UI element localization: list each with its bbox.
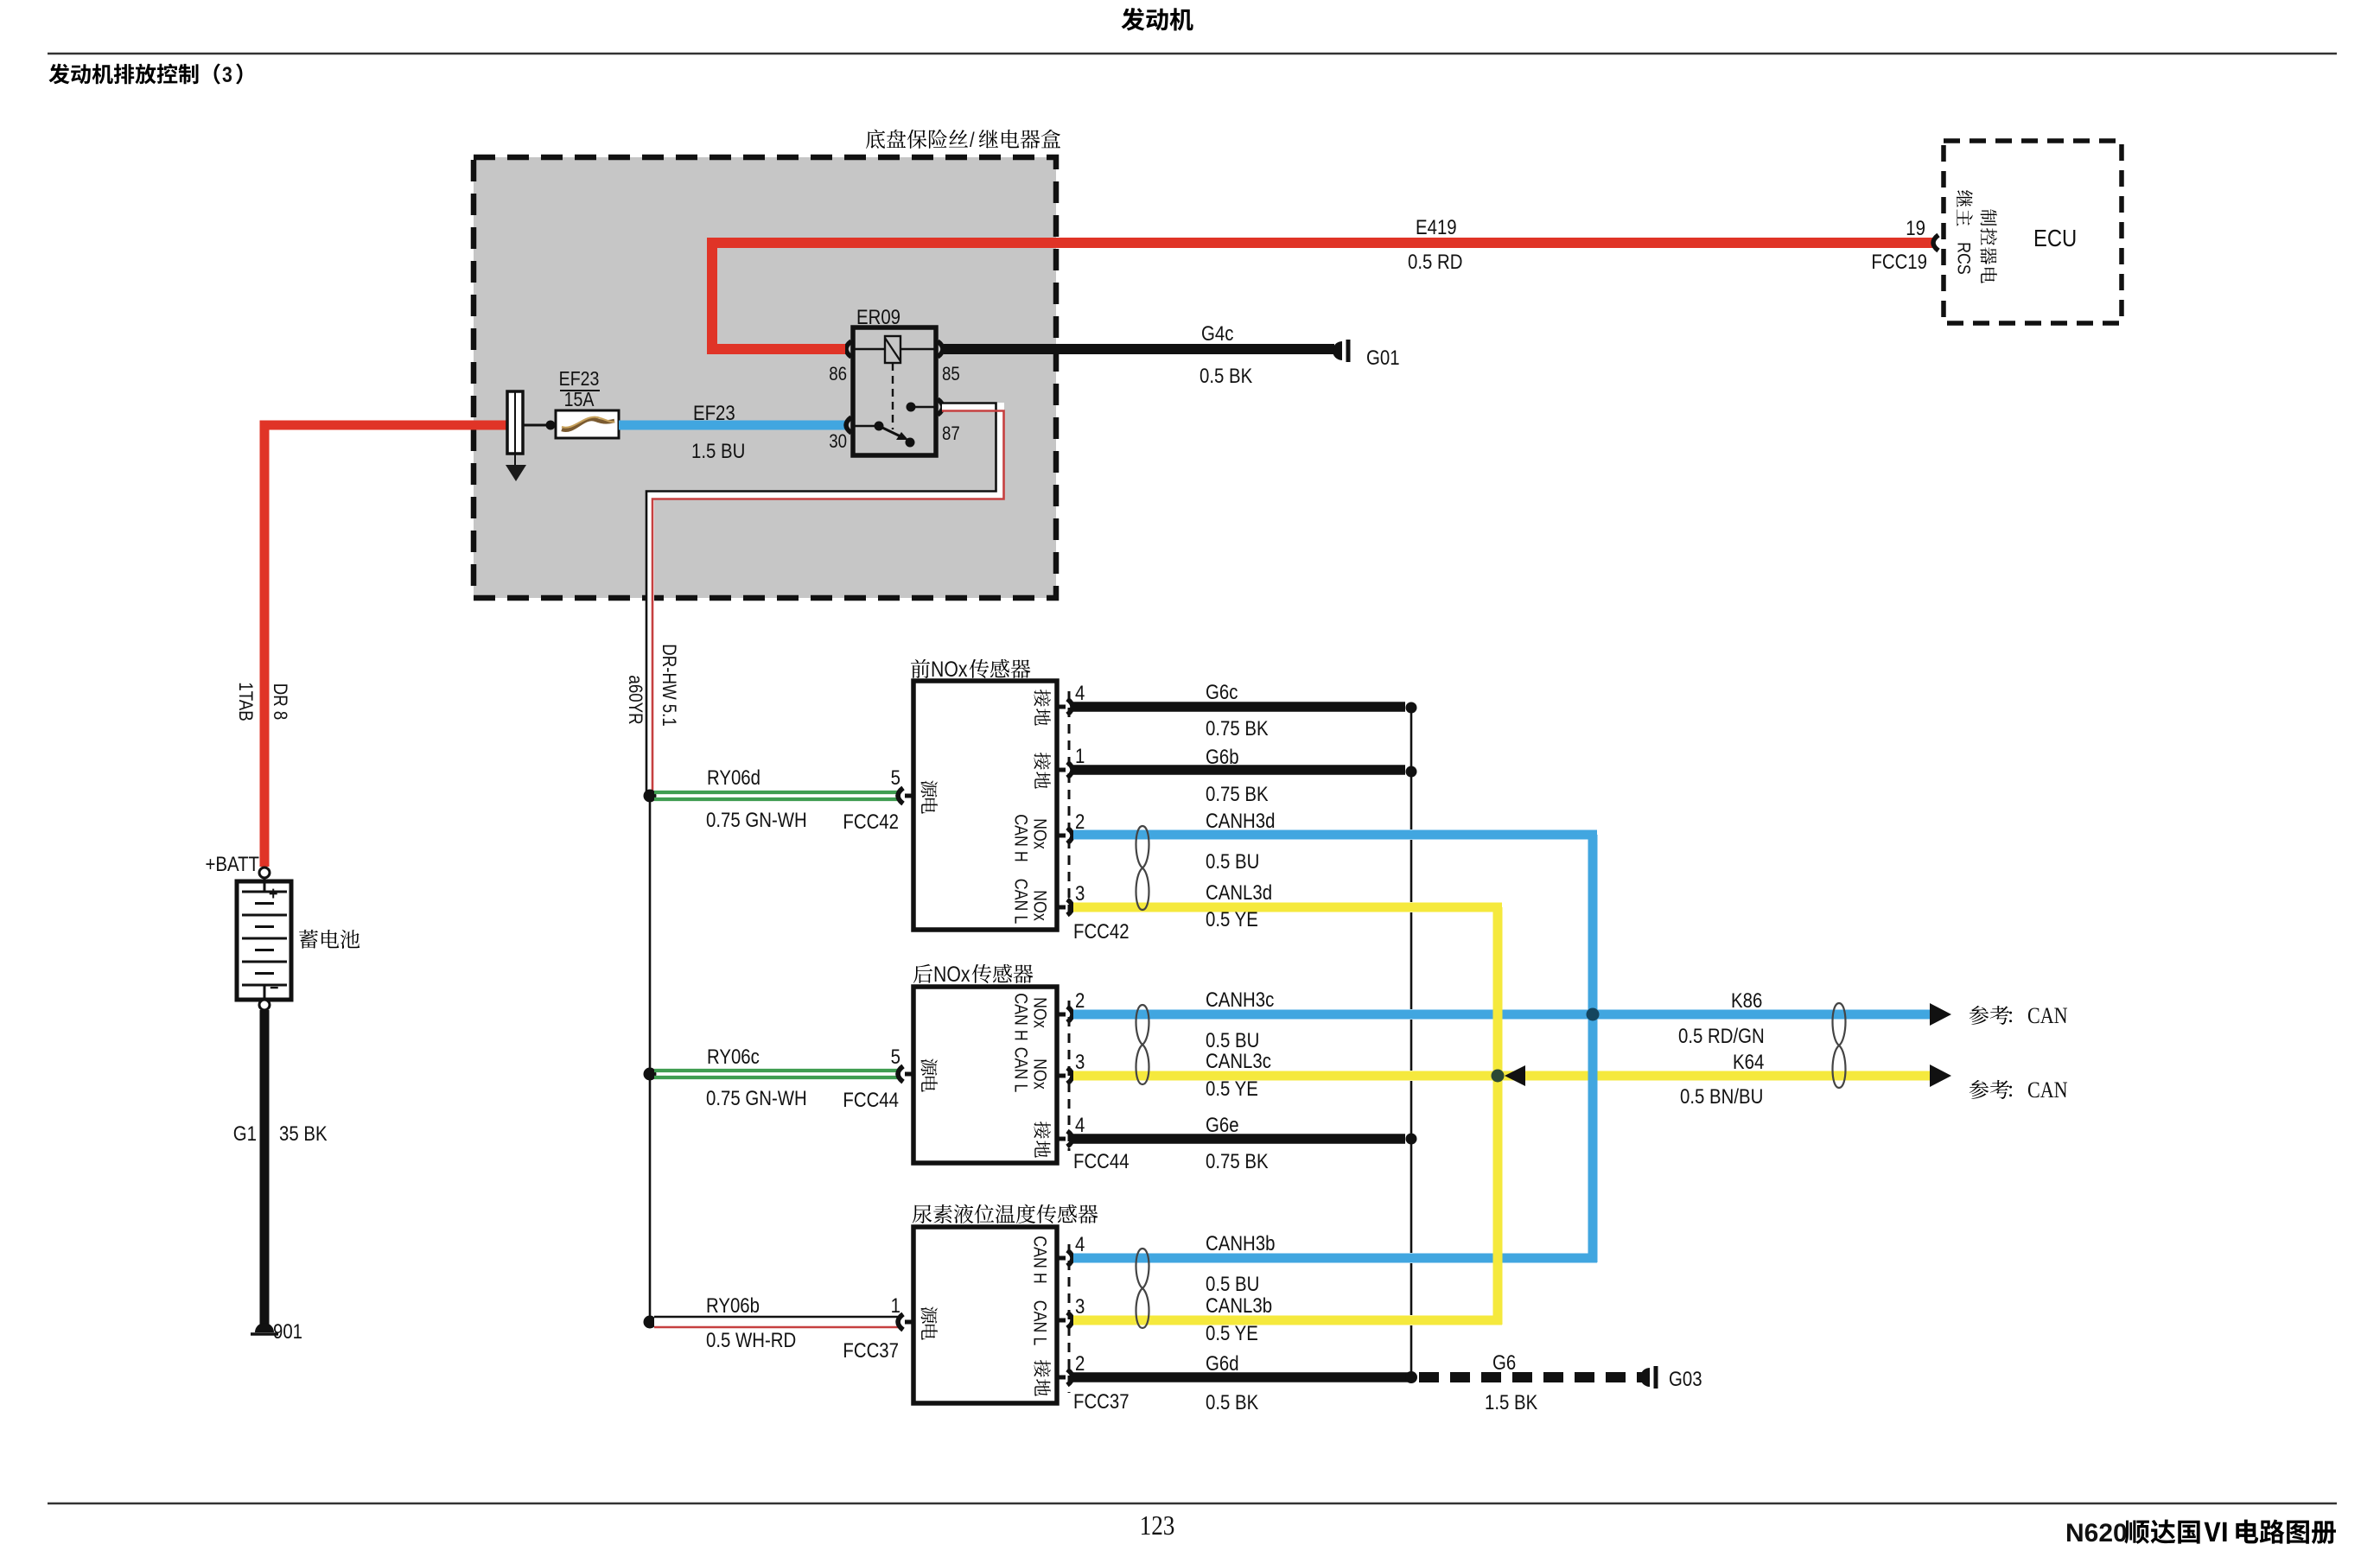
fuse bar symbol <box>507 391 523 454</box>
relay pin connectors <box>846 341 851 357</box>
arrow below fuse bar <box>514 454 516 465</box>
svg-text:EF23: EF23 <box>693 401 735 424</box>
svg-text:0.5 YE: 0.5 YE <box>1206 1321 1258 1344</box>
connector dashed boundary FCC37 <box>1068 1244 1071 1393</box>
svg-text:1: 1 <box>891 1293 900 1317</box>
svg-text:15A: 15A <box>564 389 595 411</box>
svg-text:123: 123 <box>1140 1511 1175 1541</box>
junction dot CANL + left arrow <box>1492 1070 1505 1083</box>
wire RY06d 0.75 GN-WH <box>654 791 899 794</box>
svg-text:0.5 BU: 0.5 BU <box>1206 1272 1259 1295</box>
svg-text:FCC42: FCC42 <box>843 810 899 833</box>
svg-text:G4c: G4c <box>1201 321 1233 345</box>
svg-text:30: 30 <box>829 432 847 453</box>
wire CANH3d 0.5 BU <box>1073 830 1597 840</box>
svg-text:CANL3c: CANL3c <box>1206 1049 1271 1072</box>
svg-text:RY06d: RY06d <box>707 766 760 789</box>
svg-text:0.5 YE: 0.5 YE <box>1206 907 1258 931</box>
svg-text:K64: K64 <box>1733 1050 1764 1073</box>
svg-text:87: 87 <box>942 424 960 445</box>
svg-text:G6e: G6e <box>1206 1113 1239 1136</box>
svg-text:CANH3d: CANH3d <box>1206 809 1275 832</box>
svg-text:0.5 BN/BU: 0.5 BN/BU <box>1680 1084 1763 1108</box>
wire G6d 0.5 BK <box>1073 1372 1409 1382</box>
svg-text:CAN: CAN <box>2027 1078 2068 1103</box>
svg-text:CANL3d: CANL3d <box>1206 880 1272 904</box>
CAN arrows to 参考 <box>1930 1003 1951 1026</box>
svg-text:NOx: NOx <box>933 962 970 986</box>
svg-text:FCC42: FCC42 <box>1073 919 1130 943</box>
relay coil <box>855 348 885 350</box>
svg-text:2: 2 <box>1075 1351 1085 1375</box>
svg-text:a60YR: a60YR <box>625 675 646 724</box>
svg-text:EF23: EF23 <box>559 368 600 391</box>
svg-text:19: 19 <box>1906 216 1925 239</box>
G6 dashed wire 1.5 BK to G03 <box>1405 1371 1417 1383</box>
wire BAT1 red: battery to fuse <box>264 425 506 867</box>
CAN H vertical bus (blue) <box>1588 835 1598 1262</box>
wire G6e 0.75 BK <box>1073 1134 1405 1144</box>
top rule <box>48 53 2337 55</box>
svg-text:FCC37: FCC37 <box>1073 1389 1130 1413</box>
ground 901 <box>255 1323 274 1332</box>
svg-text:N620: N620 <box>2065 1519 2128 1547</box>
wire CANL3c 0.5 YE <box>1073 1071 1930 1081</box>
svg-text:0.5 RD/GN: 0.5 RD/GN <box>1678 1024 1765 1047</box>
svg-text:G1: G1 <box>233 1122 257 1145</box>
svg-text:G6c: G6c <box>1206 680 1238 703</box>
front NOx sensor box 前NOx传感器 <box>913 681 1057 930</box>
bottom rule <box>48 1503 2337 1505</box>
svg-text:3: 3 <box>1075 1294 1085 1318</box>
svg-text:CAN H: CAN H <box>1029 1236 1050 1283</box>
svg-text:85: 85 <box>942 365 960 385</box>
svg-text:5: 5 <box>891 766 900 789</box>
svg-text:NOx: NOx <box>931 657 968 681</box>
svg-text:G6: G6 <box>1492 1350 1516 1374</box>
CAN L vertical bus (yellow) <box>1493 907 1503 1325</box>
svg-text:CANH3b: CANH3b <box>1206 1231 1275 1255</box>
svg-text:ECU: ECU <box>2033 224 2077 251</box>
svg-text:3: 3 <box>222 62 232 86</box>
svg-text:35 BK: 35 BK <box>279 1122 328 1145</box>
svg-text:CAN L: CAN L <box>1029 1300 1050 1346</box>
wire RY06b 0.5 WH-RD <box>654 1316 899 1329</box>
svg-text:ER09: ER09 <box>856 305 900 328</box>
svg-text:DR-HW 5.1: DR-HW 5.1 <box>659 644 679 727</box>
svg-text:FCC44: FCC44 <box>843 1088 899 1111</box>
battery 蓄电池 <box>259 867 270 878</box>
wire G1 35 BK <box>260 1010 270 1326</box>
svg-text:0.75 BK: 0.75 BK <box>1206 716 1269 740</box>
svg-text:FCC44: FCC44 <box>1073 1149 1130 1173</box>
svg-text:1TAB: 1TAB <box>235 682 256 721</box>
wire EF23 1.5 BU blue <box>619 421 849 430</box>
svg-text:CANH3c: CANH3c <box>1206 988 1274 1011</box>
svg-text:RY06c: RY06c <box>707 1045 760 1068</box>
svg-text:−: − <box>270 978 278 999</box>
relay ER09 <box>853 327 936 455</box>
junction dots <box>644 790 657 803</box>
svg-text:CAN L: CAN L <box>1010 1047 1031 1093</box>
connector dashed boundary FCC42 <box>1068 691 1071 920</box>
svg-text:0.75 BK: 0.75 BK <box>1206 1149 1269 1173</box>
ground connector G01 <box>1333 341 1342 360</box>
svg-text:NOx: NOx <box>1029 890 1050 921</box>
svg-text:5: 5 <box>891 1045 900 1068</box>
svg-text:G03: G03 <box>1669 1367 1702 1390</box>
wire CANH3b 0.5 BU <box>1073 1254 1597 1263</box>
svg-text:CANL3b: CANL3b <box>1206 1293 1272 1317</box>
svg-text:2: 2 <box>1075 810 1085 833</box>
connector dashed boundary FCC44 <box>1068 1001 1071 1151</box>
wire to EF23 <box>523 424 556 427</box>
svg-text:FCC37: FCC37 <box>843 1338 899 1362</box>
svg-text:CAN: CAN <box>2027 1004 2068 1028</box>
svg-text:901: 901 <box>273 1319 302 1343</box>
wire CANH3c 0.5 BU <box>1073 1010 1930 1020</box>
page title 发动机 <box>1122 8 1145 31</box>
svg-text:NOx: NOx <box>1029 1058 1050 1090</box>
svg-text:3: 3 <box>1075 1050 1085 1073</box>
svg-text:/: / <box>970 128 975 151</box>
svg-text:0.5 BU: 0.5 BU <box>1206 1028 1259 1052</box>
svg-text:+BATT: +BATT <box>205 852 259 875</box>
svg-text:NOx: NOx <box>1029 818 1050 849</box>
svg-text:1.5 BU: 1.5 BU <box>691 439 745 462</box>
svg-text:G6b: G6b <box>1206 745 1239 768</box>
svg-text:K86: K86 <box>1731 988 1762 1012</box>
relay switch 30-87 <box>855 425 879 427</box>
svg-text:NOx: NOx <box>1029 997 1050 1028</box>
junction dot CANH <box>1587 1008 1600 1021</box>
wire E419 0.5 RD to ECU <box>712 243 1932 349</box>
svg-text:G6d: G6d <box>1206 1351 1239 1375</box>
ref CAN labels <box>1970 1006 1989 1025</box>
wire CANL3d 0.5 YE <box>1073 903 1502 912</box>
ground bus thin line <box>1410 708 1413 829</box>
interior pin names <box>1034 690 1050 707</box>
svg-text:0.5 RD: 0.5 RD <box>1408 250 1462 273</box>
svg-text:1.5 BK: 1.5 BK <box>1485 1390 1537 1414</box>
svg-text:CAN H: CAN H <box>1010 993 1031 1040</box>
svg-text:0.75 BK: 0.75 BK <box>1206 782 1269 805</box>
svg-text:RY06b: RY06b <box>706 1293 760 1317</box>
svg-text:4: 4 <box>1075 1232 1085 1255</box>
svg-text:1: 1 <box>1075 744 1085 767</box>
trunk wire down <box>649 796 652 1322</box>
section heading 发动机排放控制（3） <box>48 64 69 85</box>
wire CANL3b 0.5 YE <box>1073 1316 1502 1325</box>
rear NOx sensor box 后NOx传感器 <box>913 987 1057 1163</box>
svg-text:0.5 BK: 0.5 BK <box>1206 1390 1258 1414</box>
svg-text:0.5 BK: 0.5 BK <box>1200 364 1252 387</box>
pins <box>1056 705 1066 709</box>
box label 底盘保险丝/继电器盒 <box>866 130 885 149</box>
svg-text:86: 86 <box>829 365 847 385</box>
svg-text:4: 4 <box>1075 1113 1085 1136</box>
wire RY06c 0.75 GN-WH <box>654 1069 899 1072</box>
wire G6b 0.75 BK <box>1073 765 1405 775</box>
label 蓄电池 <box>299 930 318 949</box>
svg-text:0.5 YE: 0.5 YE <box>1206 1077 1258 1100</box>
fuse EF23 15A <box>556 410 619 438</box>
twisted pair <box>1136 826 1149 910</box>
svg-text:0.75 GN-WH: 0.75 GN-WH <box>706 808 807 831</box>
svg-text:4: 4 <box>1075 681 1085 704</box>
chassis fuse/relay box <box>474 157 1056 598</box>
wire RY06a 1.5 WH-RD from relay 87 <box>650 407 1000 796</box>
svg-text:+: + <box>269 884 277 905</box>
svg-text:CAN H: CAN H <box>1010 814 1031 861</box>
svg-text:E419: E419 <box>1416 215 1457 238</box>
svg-text:2: 2 <box>1075 988 1085 1012</box>
svg-text:RCS: RCS <box>1953 242 1974 275</box>
ECU dashed box <box>1944 141 2122 323</box>
wire G6c 0.75 BK <box>1073 702 1405 712</box>
wire G4c 0.5 BK <box>944 344 1334 354</box>
svg-text:0.5 WH-RD: 0.5 WH-RD <box>706 1328 796 1351</box>
urea level/temperature sensor box 尿素液位温度传感器 <box>913 1227 1057 1403</box>
svg-text:3: 3 <box>1075 881 1085 905</box>
svg-text:0.5 BU: 0.5 BU <box>1206 849 1259 873</box>
svg-text:0.75 GN-WH: 0.75 GN-WH <box>706 1086 807 1109</box>
svg-text:FCC19: FCC19 <box>1871 250 1927 273</box>
svg-text:DR 8: DR 8 <box>270 683 290 721</box>
svg-text:CAN L: CAN L <box>1010 879 1031 925</box>
svg-text:G01: G01 <box>1366 346 1400 369</box>
